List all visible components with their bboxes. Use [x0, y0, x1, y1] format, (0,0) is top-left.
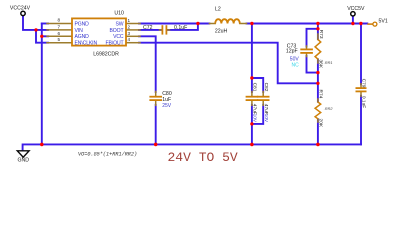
svg-text:R74: R74	[318, 90, 324, 99]
svg-text:VIN: VIN	[75, 28, 84, 34]
svg-text:6: 6	[57, 31, 60, 36]
svg-text:3: 3	[128, 31, 131, 36]
svg-text:0.1uF: 0.1uF	[174, 25, 187, 31]
svg-text:0.1uF: 0.1uF	[361, 96, 367, 108]
svg-text:8: 8	[57, 18, 60, 23]
svg-text:SW: SW	[116, 21, 124, 27]
svg-text:PGND: PGND	[75, 21, 90, 27]
svg-text:10V: 10V	[263, 114, 269, 123]
svg-text:VCC: VCC	[113, 34, 124, 40]
svg-text:24V TO 5V: 24V TO 5V	[168, 150, 238, 165]
svg-text:7: 7	[57, 24, 60, 29]
svg-text:.RR1: .RR1	[324, 61, 333, 65]
svg-text:EN\CLKIN: EN\CLKIN	[75, 41, 98, 47]
svg-text:5: 5	[57, 37, 60, 42]
svg-text:C72: C72	[143, 25, 153, 31]
svg-text:2: 2	[128, 24, 131, 29]
svg-text:4: 4	[128, 37, 131, 42]
svg-text:R73: R73	[318, 30, 324, 39]
svg-text:C82: C82	[263, 83, 269, 92]
svg-text:10V: 10V	[252, 114, 258, 123]
svg-text:.RR2: .RR2	[324, 107, 334, 111]
svg-text:1uF: 1uF	[162, 97, 171, 103]
svg-text:NC: NC	[292, 62, 300, 68]
svg-text:20K: 20K	[317, 119, 323, 128]
svg-text:L2: L2	[215, 7, 221, 13]
svg-text:1: 1	[128, 18, 131, 23]
svg-text:BOOT: BOOT	[110, 28, 124, 34]
svg-text:L6982CDR: L6982CDR	[93, 51, 119, 57]
svg-text:5V1: 5V1	[379, 18, 388, 24]
svg-text:VO=0.85*(1+RR1/RR2): VO=0.85*(1+RR1/RR2)	[78, 152, 137, 158]
svg-text:FB\OUT: FB\OUT	[106, 41, 124, 47]
svg-text:12pF: 12pF	[286, 49, 298, 55]
svg-text:22uH: 22uH	[215, 28, 228, 34]
svg-text:AGND: AGND	[75, 34, 90, 40]
svg-text:U10: U10	[114, 11, 124, 17]
svg-text:36K: 36K	[317, 60, 323, 69]
svg-text:VCC5V: VCC5V	[347, 6, 365, 12]
svg-text:C81: C81	[252, 83, 258, 92]
svg-text:25V: 25V	[162, 103, 172, 109]
svg-text:GND: GND	[18, 157, 30, 163]
svg-text:C79: C79	[361, 79, 367, 88]
svg-text:VCC24V: VCC24V	[10, 6, 31, 12]
